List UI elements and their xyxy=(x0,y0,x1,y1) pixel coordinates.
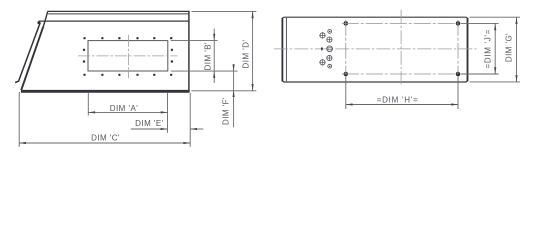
connector hole: crosshair circle top xyxy=(320,33,325,38)
plan view left inner bend line xyxy=(285,18,287,82)
DIM F dimension line with outside arrows xyxy=(233,65,235,128)
svg-text:=DIM 'H'=: =DIM 'H'= xyxy=(377,95,419,104)
plan view outer rectangle xyxy=(282,17,467,82)
DIM B / DIM F shared extension line xyxy=(171,70,238,72)
DIM J dimension line xyxy=(494,23,496,74)
connector hole: small circle top xyxy=(328,30,332,34)
svg-text:DIM 'B': DIM 'B' xyxy=(203,42,212,70)
DIM A dimension line xyxy=(88,111,167,113)
DIM D top extension line xyxy=(191,10,256,12)
DIM D bottom extension line xyxy=(191,90,256,92)
svg-text:=DIM 'J'=: =DIM 'J'= xyxy=(483,29,492,69)
svg-text:DIM 'D': DIM 'D' xyxy=(241,40,250,69)
enclosure side view: lid bottom line xyxy=(39,20,190,22)
DIM B dimension line with outside arrows xyxy=(213,29,215,84)
lid hinge knob xyxy=(37,21,40,24)
connector hole: hatched circle bottom xyxy=(327,55,332,60)
enclosure side view: front face top bend xyxy=(43,11,47,26)
enclosure side view: top edge inner line xyxy=(48,13,189,15)
DIM J extension lines xyxy=(461,22,499,24)
DIM E dimension line with outside arrows xyxy=(131,128,168,130)
mounting holes right column xyxy=(171,49,173,63)
corner mounting hole dots xyxy=(344,21,349,26)
enclosure side view: sloped front face xyxy=(21,27,43,91)
plan view horizontal centerline xyxy=(274,48,477,50)
enclosure side view: bottom edge xyxy=(21,90,190,93)
svg-text:DIM 'E': DIM 'E' xyxy=(135,119,163,128)
mounting holes left column xyxy=(83,49,85,63)
enclosure side view: lid lip foot xyxy=(15,81,19,82)
plan view left edge thick xyxy=(281,18,283,82)
centerline diamond marker xyxy=(321,47,323,51)
DIM C left extension line xyxy=(18,92,20,147)
DIM C / DIM E shared right extension line xyxy=(189,93,191,147)
connector hole: hatched circle top xyxy=(327,37,332,42)
enclosure side view: top edge outer line xyxy=(48,10,190,12)
panel cutout rectangle xyxy=(88,41,168,71)
connector hole: crosshair circle bottom xyxy=(320,60,325,65)
DIM C dimension line xyxy=(19,142,190,144)
cutout vertical centerline xyxy=(127,35,129,79)
hole pattern centerline rectangle xyxy=(342,22,458,24)
DIM H dimension line xyxy=(346,104,458,106)
plan view vertical centerline xyxy=(400,10,402,85)
connector hole: slotted circle on centerline xyxy=(327,46,333,52)
DIM G dimension line xyxy=(516,17,518,82)
DIM D dimension line xyxy=(252,11,254,90)
DIM H extension lines xyxy=(345,76,347,109)
DIM A extension line left xyxy=(87,93,89,116)
enclosure side view: right rear edge xyxy=(188,11,190,92)
DIM A / DIM E shared extension line right xyxy=(167,93,169,133)
svg-text:DIM 'C': DIM 'C' xyxy=(91,133,120,142)
DIM G extension lines xyxy=(470,16,521,18)
svg-text:DIM 'G': DIM 'G' xyxy=(504,33,513,62)
enclosure side view: sloped lid lip xyxy=(18,22,40,81)
svg-text:DIM 'A': DIM 'A' xyxy=(110,104,138,113)
DIM B top extension line xyxy=(171,40,218,42)
svg-text:DIM 'F': DIM 'F' xyxy=(221,97,230,125)
plan view right edge thick xyxy=(467,18,469,82)
mounting holes bottom row xyxy=(83,74,172,76)
mounting holes top row xyxy=(83,37,172,39)
connector hole: small circle bottom xyxy=(328,64,332,68)
cutout horizontal centerline xyxy=(78,55,178,57)
